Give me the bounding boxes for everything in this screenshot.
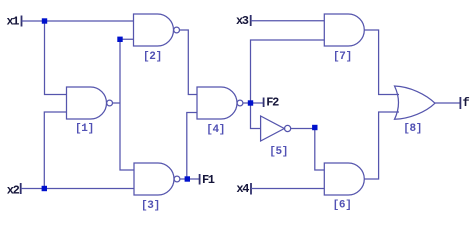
NAND gate [4] (197, 87, 243, 119)
input terminal tick x4 (250, 183, 252, 195)
output terminal tick f (459, 97, 461, 109)
wire NAND [4] output to F2 node (243, 102, 251, 104)
svg-text:[1]: [1] (75, 123, 94, 135)
AND gate [7] (324, 14, 364, 46)
input terminal tick x2 (20, 183, 22, 194)
wire vertical from node below [2] to NAND [3] top input (120, 39, 134, 170)
wire F2 node up to AND [7] bottom input (251, 40, 325, 103)
output terminal tick F2 (263, 98, 265, 108)
wire OR [8] output to terminal f (435, 102, 460, 104)
svg-text:F1: F1 (202, 173, 215, 187)
node junction at inverter output corner (312, 125, 317, 130)
wire F2 node down to inverter [5] input (251, 103, 261, 129)
svg-text:f: f (463, 96, 470, 110)
wire x2 branch up to NAND [1] bottom input (44, 112, 66, 189)
wire F2 node to terminal tick (251, 102, 264, 104)
output terminal tick F1 (199, 174, 201, 185)
svg-text:[4]: [4] (206, 124, 225, 136)
wire NAND [2] output to NAND [4] top input (180, 30, 198, 95)
wire AND [7] output to OR [8] top input (364, 30, 399, 95)
wire x4 to AND [6] bottom input (251, 188, 324, 190)
input terminal tick x1 (21, 16, 23, 27)
wire F1 node up to NAND [4] bottom input (187, 113, 197, 180)
wire NAND [1] output to vertical bus (113, 102, 121, 104)
svg-text:F2: F2 (266, 96, 279, 110)
svg-text:[7]: [7] (333, 51, 352, 63)
wire x2 to NAND [3] bottom input (21, 188, 134, 190)
svg-text:x4: x4 (236, 182, 249, 196)
NAND gate [1] (67, 87, 113, 119)
OR gate [8] (395, 86, 436, 119)
wire x1 branch down to NAND [1] top input (45, 21, 67, 95)
svg-text:x3: x3 (236, 14, 249, 28)
svg-text:[6]: [6] (333, 199, 352, 211)
wire x3 to AND [7] top input (251, 20, 325, 22)
svg-text:[2]: [2] (143, 51, 162, 63)
NAND gate [3] (134, 163, 180, 195)
wire NAND [3] output to F1 node (180, 178, 187, 180)
svg-text:[5]: [5] (269, 146, 288, 158)
node junction below NAND [2] (117, 37, 122, 42)
node junction on x1 wire (42, 18, 47, 23)
inverter gate [5] (261, 116, 291, 141)
wire corner node down to AND [6] top input (315, 129, 325, 171)
wire F1 node to terminal tick (187, 178, 199, 180)
wire inverter [5] output to corner node (291, 128, 315, 130)
node F1 junction (185, 176, 190, 181)
svg-text:[3]: [3] (141, 200, 160, 212)
node F2 junction (248, 100, 253, 105)
svg-text:[8]: [8] (403, 123, 422, 135)
AND gate [6] (324, 163, 364, 195)
NAND gate [2] (134, 14, 180, 46)
svg-text:x2: x2 (7, 183, 20, 197)
wire AND [6] output to OR [8] bottom input (364, 112, 399, 179)
node junction on x2 wire (42, 186, 47, 191)
input terminal tick x3 (250, 15, 252, 26)
svg-text:x1: x1 (7, 15, 20, 29)
wire x1 to NAND [2] top input (22, 20, 134, 22)
